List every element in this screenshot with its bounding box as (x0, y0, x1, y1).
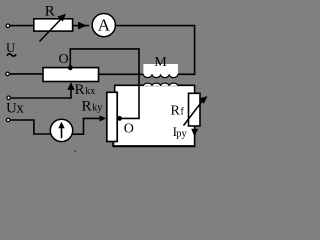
svg-text:R: R (82, 98, 92, 114)
svg-text:O: O (59, 52, 69, 67)
box right edge lower segment with Ipy arrow (194, 126, 196, 148)
svg-text:kx: kx (85, 86, 95, 97)
box top edge (114, 84, 195, 86)
resistor R (variable) body (34, 19, 73, 31)
wiper arrowhead into winding O bottom (67, 82, 74, 90)
wire: terminal 3 to wiper arrow (10, 89, 71, 98)
box bottom-left stub to winding bottom (112, 141, 114, 147)
svg-text:U: U (6, 40, 16, 55)
wire: top wire terminal1 to resistor R (9, 25, 34, 27)
svg-text:ky: ky (92, 102, 102, 113)
coil lower winding arcs on box top edge (143, 83, 177, 86)
box top-left stub to winding top (114, 85, 116, 93)
wire: terminal 2 to winding O box (9, 73, 43, 75)
coil M upper winding cloud (143, 64, 178, 75)
junction dot on winding O top (68, 65, 73, 70)
box bottom edge (113, 145, 195, 147)
control arrowhead into frame winding (100, 115, 106, 121)
wire: winding O right end to coil M left lead (99, 73, 145, 75)
wire: tap dot up, right, down to frame winding dot (70, 49, 139, 119)
terminal 3 (7, 96, 11, 100)
winding O (divider) body (43, 68, 99, 82)
svg-text:A: A (98, 16, 111, 35)
terminal 1 (6, 24, 9, 28)
device frame box (white) (115, 85, 195, 147)
variable-resistor diagonal arrow over R (40, 18, 63, 42)
current source arrow (61, 126, 63, 139)
stray mark (74, 150, 76, 152)
frame winding (vertical rect) (107, 92, 117, 141)
box right edge upper segment (194, 85, 196, 94)
current source circle (50, 119, 72, 141)
svg-text:x: x (16, 101, 24, 117)
svg-text:M: M (154, 55, 167, 70)
svg-text:R: R (75, 82, 85, 98)
terminal 2 (6, 72, 10, 76)
coil M upper winding arcs (143, 74, 177, 77)
junction dot on frame winding right edge (117, 116, 122, 121)
wire: resistor R to ammeter arrow (73, 25, 90, 27)
svg-text:R: R (171, 103, 181, 118)
svg-text:U: U (6, 101, 17, 117)
wire: current source to control arrow into frame winding (71, 118, 101, 134)
svg-text:R: R (45, 3, 55, 19)
terminal 4 (6, 118, 10, 122)
Rf diagonal arrow (184, 100, 204, 126)
wire: ammeter to right corner and down to coil M (116, 26, 195, 75)
svg-text:py: py (176, 129, 187, 140)
arrow on wire toward ammeter (78, 22, 87, 30)
svg-text:O: O (124, 121, 134, 136)
wire: terminal 4 to current source (10, 120, 52, 134)
ammeter A (92, 14, 115, 37)
resistor Rf body (189, 93, 201, 126)
